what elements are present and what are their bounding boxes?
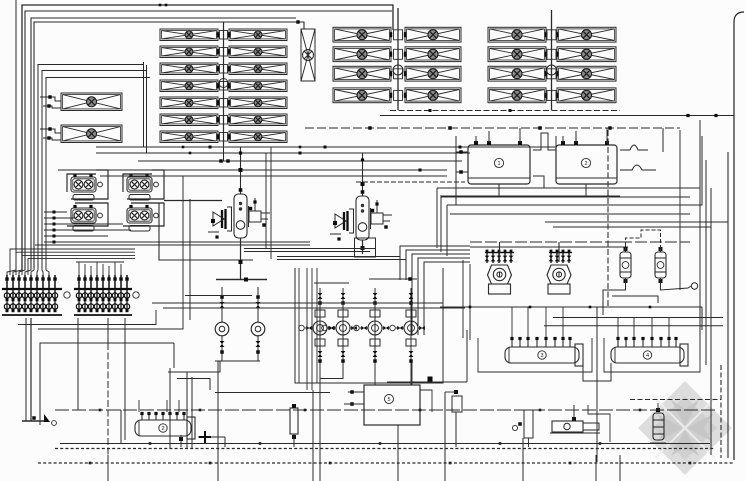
- pipe manifold drains: [25, 318, 27, 421]
- fan coil unit FCU-A1R: [228, 29, 287, 41]
- pipe fan unit headers to riser bundle: [44, 211, 310, 244]
- pipe chiller frame: [456, 136, 702, 205]
- pipe bottom-left zone frame: [40, 343, 174, 425]
- pipe bottom descenders: [108, 455, 620, 481]
- pipe FCU group A supply drop: [223, 145, 225, 161]
- pipe ET-1 connections: [120, 410, 122, 444]
- valve cluster above CWP-1: [485, 242, 514, 263]
- fan coil unit FCU-C1L: [488, 27, 547, 42]
- chiller CH-1: [468, 128, 530, 184]
- pipe HX-1 top riser: [240, 147, 242, 194]
- pipe main top header outer: [22, 5, 393, 270]
- fan coil unit FCU-A6L: [160, 114, 219, 126]
- manifold label right: [133, 292, 139, 298]
- pipe riser x556 to chiller: [555, 136, 557, 147]
- fan coil unit FCU-A4L: [160, 80, 219, 92]
- valve assembly VA-1: [452, 396, 462, 412]
- water treatment unit WT-1: [364, 385, 420, 425]
- buffer tank BT-2: [611, 344, 688, 366]
- junction dots on mains: [89, 4, 692, 465]
- pipe riser x183: [38, 176, 183, 329]
- pipe ET-1 frame: [186, 372, 188, 448]
- pipe chiller left connections: [456, 151, 468, 153]
- pipe pump columns lower connectors: [320, 376, 343, 379]
- pipe FCU group C bottom header: [390, 110, 620, 112]
- pipe center main y303: [152, 302, 443, 304]
- chilled water pump CHWP-1: [299, 288, 334, 376]
- chiller CH-2: [556, 128, 617, 184]
- fan coil unit FCU-C1R: [556, 27, 616, 42]
- condenser pump CWP-1: [488, 265, 512, 294]
- fan coil unit FCU-C3L: [488, 66, 547, 81]
- pipe bottom border y463 dotted: [38, 462, 734, 464]
- fan unit FU-4: [127, 205, 158, 231]
- valve stubs BT-1: [510, 337, 571, 347]
- fan coil unit FCU-A4R: [228, 80, 287, 92]
- pipe main chilled water supply y22: [34, 22, 296, 268]
- pipe vertical dash x608: [607, 130, 609, 307]
- pipe chilled water drops to pumps: [400, 246, 470, 335]
- pipe riser x398 long: [397, 425, 399, 481]
- pipe right dashed riser: [720, 365, 722, 458]
- pipe HX cross headers: [244, 248, 375, 250]
- fan coil unit FCU-A5L: [160, 97, 219, 109]
- pipe AHU-1 connections: [40, 97, 61, 101]
- fan coil unit FCU-B4L: [333, 88, 392, 103]
- pipe V2 right connector box: [355, 238, 376, 257]
- chilled water pump CHWP-3: [354, 288, 389, 376]
- pipe main return y153: [96, 152, 470, 154]
- chilled water pump CHWP-2: [322, 288, 357, 376]
- fan coil unit FCU-A5R: [228, 97, 287, 109]
- fan unit FU-1: [71, 174, 102, 200]
- pipe left riser bundle: [16, 0, 150, 268]
- condenser pump CWP-2: [547, 265, 571, 294]
- pipe riser x313-320 long: [312, 390, 314, 481]
- dosing pot DP-1: [650, 403, 666, 443]
- pipe pump columns frame: [295, 268, 443, 383]
- pipe tank headers: [440, 306, 702, 308]
- exhaust fan EF-1: [301, 29, 315, 81]
- heat exchanger HX-2: [330, 196, 392, 241]
- svg-text:3: 3: [540, 353, 543, 359]
- expansion tank ET-1: [135, 417, 195, 439]
- pipe manifold drop x78: [77, 318, 79, 410]
- pipe HX-1 side risers: [265, 153, 267, 248]
- pipe main supply y147: [96, 146, 556, 148]
- fan coil unit FCU-A3R: [228, 63, 287, 75]
- svg-text:2: 2: [161, 426, 164, 432]
- pipe elbow to rooftop fan: [296, 22, 304, 29]
- pipe WT-1 right riser: [420, 390, 432, 412]
- fan coil unit FCU-B4R: [404, 88, 461, 103]
- pipe right dashed header: [630, 399, 721, 401]
- pipe riser bundle to manifold fan-out: [7, 249, 135, 276]
- pipe HX-2 top riser: [362, 153, 364, 196]
- fan coil unit FCU-C2R: [556, 47, 616, 62]
- fan coil unit FCU-B2L: [333, 47, 392, 62]
- fan coil unit FCU-A2L: [160, 46, 219, 58]
- pipe main return y176: [100, 175, 447, 177]
- fan coil unit FCU-A3L: [160, 63, 219, 75]
- pipe bottom main y448 dotted: [55, 448, 715, 450]
- pipe right border riser: [734, 12, 744, 460]
- fan coil unit FCU-B1R: [404, 27, 461, 42]
- fan coil unit FCU-C4R: [556, 88, 616, 103]
- distribution manifold DM-1: [2, 275, 62, 315]
- fan coil unit FCU-B1L: [333, 27, 392, 42]
- svg-text:1: 1: [497, 161, 500, 167]
- fan coil unit FCU-C2L: [488, 47, 547, 62]
- pipe main top header third: [31, 18, 296, 268]
- pipe quads to HX-1 connector: [164, 200, 222, 202]
- fan coil unit FCU-A2R: [228, 46, 287, 58]
- pipe tank frames: [478, 338, 592, 372]
- pipe primary pump header: [216, 279, 267, 281]
- pressure gauge PG-1: [691, 283, 697, 289]
- pipe right risers: [699, 120, 701, 360]
- fan unit FU-3: [127, 174, 158, 200]
- pipe FCU group B center manifold: [393, 8, 403, 110]
- junction marks on mains: [209, 146, 212, 149]
- pipe AHU-2 connections: [40, 129, 61, 133]
- pipe center main y308: [163, 307, 465, 309]
- pipe HX-1 bottom drop: [240, 238, 242, 279]
- svg-text:2: 2: [584, 161, 587, 167]
- pipe bottom main y443: [60, 443, 710, 445]
- fan coil unit FCU-C4L: [488, 88, 547, 103]
- pipe pump columns headers: [369, 278, 417, 280]
- pipe fan unit loop left: [67, 174, 96, 192]
- air handling unit AHU-1: [61, 93, 122, 111]
- heat exchanger HX-1: [208, 194, 270, 239]
- primary pump PP-1: [215, 287, 229, 361]
- pipe riser x445: [444, 392, 446, 463]
- pipe inter-tank connector: [583, 363, 611, 381]
- pipe chiller bottom drops: [498, 184, 500, 196]
- pipe HX-2 bottom drop: [362, 240, 364, 254]
- pipe right plant headers: [437, 187, 700, 189]
- filter F-2: [524, 410, 533, 438]
- pipe riser x218 long: [217, 361, 219, 481]
- pipe feeder y295: [185, 295, 252, 297]
- fan coil unit FCU-B3L: [333, 66, 392, 81]
- pipe right header y214: [450, 213, 690, 215]
- valve stubs BT-2: [616, 337, 677, 347]
- primary pump PP-2: [251, 287, 265, 361]
- buffer tank BT-1: [505, 344, 583, 366]
- pipe main y161: [138, 160, 462, 162]
- pipe right header y115: [380, 115, 734, 117]
- pipe riser x190: [189, 199, 191, 320]
- pipe left return header y324: [18, 310, 156, 325]
- svg-text:4: 4: [646, 353, 649, 359]
- pipe secondary pump loop: [626, 230, 661, 246]
- fan unit FU-2: [71, 205, 102, 231]
- pipe main supply y170: [58, 169, 447, 171]
- fan coil unit FCU-A1L: [160, 29, 219, 41]
- pipe manifold drop x125: [124, 318, 126, 440]
- fan coil unit FCU-A7R: [228, 131, 287, 143]
- fan coil unit FCU-B2R: [404, 47, 461, 62]
- manifold label left: [64, 292, 70, 298]
- pipe tank riser drops: [512, 307, 669, 337]
- pump unit HP-1: [550, 405, 610, 442]
- pipe FCU group C center manifold: [547, 10, 557, 110]
- valve cluster above CWP-2: [549, 242, 572, 263]
- fan coil unit FCU-B3R: [404, 66, 461, 81]
- pipe group A left risers: [143, 62, 145, 147]
- pipe chiller right riser x663: [662, 128, 664, 152]
- pipe main top header second: [25, 11, 392, 270]
- fan coil unit FCU-A7L: [160, 131, 219, 143]
- valve stubs ET-1: [140, 412, 185, 420]
- pipe right return headers: [545, 221, 728, 223]
- pipe condenser pump headers: [470, 241, 690, 243]
- pipe left header y245: [35, 244, 310, 246]
- secondary pump SP-1: [620, 246, 631, 284]
- pipe bottom main y410: [55, 409, 718, 411]
- filter F-1: [290, 408, 298, 434]
- pipe riser x523: [522, 438, 524, 463]
- svg-text:5: 5: [387, 397, 390, 403]
- distribution manifold DM-2: [74, 275, 132, 315]
- pipe FCU group A center manifold: [219, 22, 228, 145]
- chilled water pump CHWP-4: [390, 288, 425, 376]
- fan coil unit FCU-A6R: [228, 114, 287, 126]
- pipe right border inner riser: [727, 152, 729, 458]
- pipe risers to tank zone: [462, 260, 464, 338]
- air handling unit AHU-2: [61, 125, 122, 143]
- pipe WT-1 connections: [348, 391, 364, 393]
- pipe condenser header above chillers: [305, 127, 680, 129]
- fan coil unit FCU-C3R: [556, 66, 616, 81]
- pipe chiller interconnection loops: [533, 133, 556, 150]
- watermark logo: [638, 381, 732, 475]
- secondary pump SP-2: [655, 246, 666, 284]
- pipe below pump frame: [292, 382, 294, 384]
- pipe manifold drop x108: [107, 318, 109, 343]
- pipe fan unit loop right: [123, 174, 152, 192]
- pipe left mid horizontals: [65, 371, 187, 373]
- pipe secondary pumps discharge: [603, 284, 626, 315]
- pipe quads lower connector to PP zone: [159, 203, 253, 260]
- pipe HX-2 top header: [356, 181, 465, 183]
- pipe right riser x680: [679, 130, 681, 290]
